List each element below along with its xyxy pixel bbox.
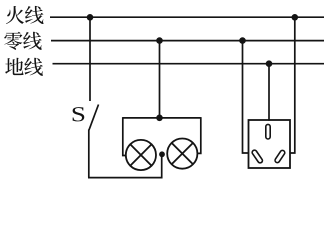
- wire: neutral drop to socket: [243, 41, 249, 153]
- label S (switch): [73, 107, 85, 121]
- socket outlet box: [249, 120, 291, 168]
- wire: ground drop to socket: [268, 64, 270, 121]
- wire: live bus line: [50, 16, 324, 18]
- label 零线 (neutral wire): [4, 32, 42, 50]
- wire: rail right drop to lamp L2: [198, 117, 201, 153]
- wire: live drop to socket: [290, 17, 295, 153]
- wire: ground bus line: [53, 63, 324, 65]
- wire: neutral drop to lamp rail: [159, 41, 161, 118]
- node: live-switch junction: [87, 14, 94, 21]
- lamp L1: [126, 140, 156, 170]
- socket ground slot: [266, 124, 270, 139]
- wire: neutral bus line: [51, 40, 324, 42]
- label 火线 (live wire): [6, 6, 44, 24]
- label 地线 (ground wire): [5, 58, 43, 76]
- wire: rail left drop to lamp L1: [123, 117, 126, 155]
- wire: lamp top rail: [123, 117, 201, 119]
- node: ground-socket junction: [266, 60, 273, 67]
- lamp L2: [167, 139, 197, 169]
- node: lamp rail junction: [156, 115, 163, 122]
- node: neutral-lamps junction: [156, 37, 163, 44]
- wire: bottom rail to lamps node: [88, 154, 162, 177]
- node: live-socket junction: [292, 14, 299, 21]
- switch S blade: [89, 105, 99, 131]
- node: neutral-socket junction: [239, 37, 246, 44]
- socket left (neutral) slot: [251, 149, 263, 164]
- node: between lamps junction: [159, 151, 165, 157]
- wire: switch to bottom rail: [88, 130, 90, 178]
- socket right (live) slot: [274, 149, 285, 163]
- wire: live drop to switch: [89, 17, 91, 101]
